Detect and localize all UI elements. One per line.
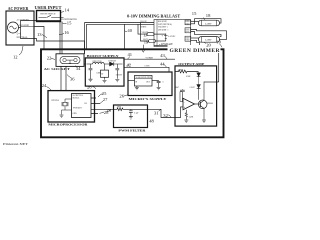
label 16 leader [59,34,64,35]
svg-text:0-10V DIMMING BALLAST: 0-10V DIMMING BALLAST [127,15,181,19]
label 26 leader [124,95,128,97]
connector 17 [147,33,154,36]
switch S1 (user input) [37,11,61,22]
ballast right pin box 1 [185,20,191,25]
svg-text:NEUTRAL: NEUTRAL [17,36,29,39]
ground [103,80,107,82]
svg-text:22: 22 [47,55,52,60]
wire ground stub [21,26,35,28]
label 22 leader [51,59,55,60]
capacitor C2 [115,64,119,79]
svg-text:BLACK: BLACK [141,20,148,23]
svg-text:0-10VDC: 0-10VDC [168,36,176,38]
svg-text:0.56K: 0.56K [186,76,191,78]
svg-text:VIO (DIM +): VIO (DIM +) [158,26,168,29]
OUTPUT AMP box [175,66,217,126]
label 24 leader [47,87,52,91]
svg-text:15: 15 [192,11,197,16]
svg-text:GREEN DIMMER: GREEN DIMMER [170,48,221,54]
wire [21,28,35,39]
ground [115,79,119,81]
svg-text:19: 19 [144,40,149,45]
svg-text:AC POWER: AC POWER [8,6,29,11]
svg-text:26: 26 [119,93,124,98]
AC source V1 [8,22,19,33]
svg-text:GRY (DIM −): GRY (DIM −) [158,28,169,31]
GREEN DIMMER enclosure [41,49,224,137]
capacitor C1 [89,64,93,79]
wires socket to micro [61,66,66,90]
svg-text:MICROPROCESSOR: MICROPROCESSOR [48,123,88,127]
resistor R3 [175,70,198,73]
svg-text:20: 20 [206,42,211,47]
svg-text:4.99KΩ: 4.99KΩ [178,69,184,71]
svg-text:43: 43 [160,53,165,58]
svg-text:41: 41 [128,52,133,57]
wire gray [141,23,149,42]
svg-text:CRYSTAL: CRYSTAL [51,99,60,102]
reference numerals [13,8,222,124]
wire [195,103,201,105]
MICRO'S SUPPLY box [128,72,172,96]
resistor R2 [114,108,131,111]
label 42 leader [127,64,130,67]
svg-text:D-BOOST: D-BOOST [109,61,118,63]
ground [89,79,93,81]
label 31 leader [159,109,161,111]
wire [19,21,35,28]
diode D2 [197,73,201,77]
svg-text:MICRO’S SUPPLY: MICRO’S SUPPLY [129,97,168,101]
svg-text:10: 10 [216,40,221,45]
wire socket to boost [84,63,85,65]
capacitor C5 [129,109,133,116]
label 27 leader [100,101,103,104]
svg-text:BLK (HOT): BLK (HOT) [158,20,167,23]
svg-text:25: 25 [102,91,107,96]
svg-text:42: 42 [127,62,132,67]
svg-text:GND: GND [73,113,78,115]
resistor R4 [185,110,187,120]
capacitor C4 [157,81,161,88]
svg-text:26: 26 [87,84,92,89]
svg-text:29: 29 [106,108,111,113]
wire ground [34,27,44,50]
label 28 leader [100,112,105,113]
label 40 leader [125,30,127,32]
svg-text:MJE800: MJE800 [207,103,213,105]
svg-text:36: 36 [70,76,75,81]
crystal Y1 [63,102,67,106]
wire user input drop [61,22,63,55]
wire [128,80,135,82]
lamp 2 [199,37,220,43]
svg-text:2.49K: 2.49K [189,116,194,118]
svg-text:CS-500 REGULATOR: CS-500 REGULATOR [135,76,152,79]
svg-text:LAMP: LAMP [205,39,212,42]
IC U2 [101,70,109,77]
label 41 leader [128,57,131,60]
wire neutral [34,39,85,55]
wire to dimmer [218,45,220,82]
svg-text:13: 13 [37,32,42,37]
AC POWER box [6,11,34,45]
wire bus gray [87,24,155,49]
svg-text:27: 27 [103,97,108,102]
svg-text:24: 24 [42,83,47,88]
wire junction [84,23,86,54]
svg-text:+5 VDC: +5 VDC [144,66,151,68]
svg-text:PWM FILTER: PWM FILTER [118,128,146,132]
label 17 leader [146,35,148,37]
AC socket J1 [56,54,84,67]
BOOST SUPPLY box [85,58,124,86]
source B1 0-10V [164,34,168,42]
potentiometer note [61,19,77,21]
label 25 leader [98,94,103,98]
svg-text:16: 16 [64,30,69,35]
label 14 leader [60,12,64,14]
ground [157,88,161,90]
svg-text:PWM OUT: PWM OUT [73,108,83,110]
wire [136,86,138,87]
ground [60,115,64,117]
label 12 [19,46,23,55]
wire opamp minus [180,92,183,102]
ballast pin labels [141,20,177,47]
fixture ground wire [154,42,219,45]
svg-text:Pinterest.NET: Pinterest.NET [3,142,28,146]
wire input [175,107,183,118]
ballast right pin box 3 [185,36,191,41]
MICROPROCESSOR box [48,91,95,122]
label 18 leader [204,18,206,21]
svg-text:BOOST SUPPLY: BOOST SUPPLY [87,54,120,58]
label 10 leader [220,44,223,48]
wire [154,33,166,35]
PWM FILTER box [114,105,148,128]
svg-text:14: 14 [65,8,70,13]
wire top rail [87,63,93,65]
label 15 leader [63,22,67,25]
svg-text:SIGNAL: SIGNAL [73,96,81,99]
ground [129,117,133,119]
ground [135,88,139,90]
svg-text:40: 40 [127,28,132,33]
wire inner [156,20,158,47]
label 36 leader [67,75,71,78]
lamp harness wires [191,20,199,22]
regulator U3 [135,76,153,87]
inductor L1 [93,62,105,64]
label 32 leader [168,115,171,118]
ground [184,120,188,122]
transistor Q1 [198,100,207,109]
lamp 18 [199,20,220,26]
svg-text:OUTPUT AMP: OUTPUT AMP [178,62,205,66]
svg-text:(∼): (∼) [17,32,21,36]
svg-text:+V DIMM: +V DIMM [145,58,154,60]
svg-text:GROUND: GROUND [19,24,30,27]
svg-text:ON/OFF SWITCH: ON/OFF SWITCH [40,14,56,16]
svg-text:32: 32 [163,113,168,118]
svg-text:+5: +5 [162,81,164,83]
svg-text:15: 15 [67,21,72,26]
ballast enclosure [154,20,191,47]
label 34 leader [75,66,77,68]
label 44 leader [164,64,167,67]
svg-text:31: 31 [154,110,159,115]
svg-text:+: + [87,70,88,72]
label 13 leader [42,35,47,39]
svg-text:USER INPUT: USER INPUT [35,5,62,10]
label 20 leader [204,42,206,43]
wire bus violet [85,22,155,24]
IC U4 [72,94,92,118]
svg-text:WHITE: WHITE [141,27,148,29]
ballast right pin box 2 [185,28,191,33]
wire 40 arrow entry [142,45,144,50]
wire [156,40,166,42]
label 43 leader [165,57,167,60]
wire to output amp [131,109,175,117]
wire [152,80,159,82]
svg-text:34: 34 [76,66,81,71]
svg-text:WHT (NEUTRAL): WHT (NEUTRAL) [158,23,172,26]
svg-text:AC POWER: AC POWER [17,18,30,21]
rail B +5VDC [124,67,169,72]
svg-text:18: 18 [206,13,211,18]
svg-text:0.1μF: 0.1μF [134,112,138,114]
svg-text:.0047: .0047 [175,87,179,89]
titles [8,5,221,132]
diode D1 [104,63,109,65]
op-amp U5 [183,98,195,109]
AC source terminal labels [17,18,30,39]
ground [202,120,206,122]
wire violet [138,24,147,34]
label 19 leader [147,42,149,44]
svg-text:47KΩ: 47KΩ [117,107,122,109]
svg-text:44: 44 [160,61,165,66]
svg-text:INDUCTOR: INDUCTOR [93,61,103,63]
svg-text:17: 17 [143,33,148,38]
svg-text:+BOOST: +BOOST [115,75,123,77]
label 29 leader [109,109,111,111]
connector 19 [149,40,156,43]
svg-text:LAMP: LAMP [205,22,212,25]
svg-text:12: 12 [13,55,18,60]
diode D3 [197,72,201,89]
wire hot [34,21,60,55]
label 26b leader [93,86,97,89]
pins [91,98,114,114]
svg-text:AC SOCKET: AC SOCKET [44,67,71,71]
wire collector rail [204,81,219,83]
capacitor C6 [180,89,185,101]
svg-text:48: 48 [149,118,154,123]
wire 40 [124,24,126,49]
rail A +V DIMM [124,58,175,60]
